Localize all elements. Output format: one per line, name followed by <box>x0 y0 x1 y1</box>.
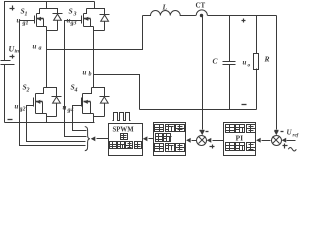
CT junction dot <box>200 14 203 17</box>
svg-text:4: 4 <box>74 88 78 94</box>
label + sum1 <box>210 146 215 148</box>
summing junction sum2 <box>272 136 282 146</box>
svg-text:a: a <box>39 46 42 52</box>
svg-text:L: L <box>162 3 168 12</box>
svg-text:in: in <box>15 49 20 55</box>
gate wire S3 <box>65 21 87 137</box>
svg-text:g1: g1 <box>22 21 29 27</box>
arrow into sum2 <box>274 131 279 136</box>
label + battery <box>10 56 15 58</box>
svg-text:g3: g3 <box>70 21 77 27</box>
gate wire S2 <box>27 106 86 142</box>
wire: DC left rail and top bus <box>5 2 95 61</box>
wire: S2 source <box>36 113 47 115</box>
arrow into sum1 <box>200 131 205 136</box>
wire sum2 out to PI block <box>262 140 271 142</box>
svg-text:PI: PI <box>236 134 244 143</box>
svg-text:S: S <box>69 7 73 16</box>
svg-text:ref: ref <box>293 134 300 139</box>
diode D3 <box>100 15 110 22</box>
wire: S2 riser to bus <box>46 114 48 123</box>
fake glyph huo <box>121 134 128 140</box>
sine symbol <box>288 148 296 152</box>
transistor S1 <box>35 14 44 27</box>
wire: D3 anode <box>104 22 106 31</box>
fake glyphs dian ya huan <box>226 125 256 133</box>
wire: voltage sense rail <box>276 16 278 130</box>
svg-text:3: 3 <box>73 12 77 18</box>
pulse waveform <box>113 113 131 121</box>
arrow SPWM to gates <box>97 138 109 140</box>
transistor S2 <box>34 94 43 114</box>
diode D1 <box>53 14 63 21</box>
svg-text:R: R <box>264 55 270 64</box>
summing junction sum1 <box>197 136 207 146</box>
wire: output bottom bus <box>140 109 257 111</box>
fake glyphs tiao jie qi <box>155 144 185 152</box>
capacitor C <box>223 16 236 110</box>
label minus sum2 <box>281 131 284 133</box>
block U2 SPWM or hysteresis modulator <box>109 124 143 156</box>
label minus bottom left <box>8 119 13 121</box>
wire: S4 source <box>83 113 94 115</box>
node B wire ub <box>94 75 140 110</box>
wire: S4/D4 merge <box>94 116 105 118</box>
wire: leg B bottom tee <box>83 88 92 94</box>
svg-text:u: u <box>15 103 19 111</box>
svg-text:b: b <box>89 72 92 78</box>
label minus output <box>242 104 247 106</box>
wire: D4 anode <box>104 104 106 117</box>
wire uref to sum2 <box>287 140 296 142</box>
label + output <box>242 20 246 22</box>
wire: leg A riser <box>46 27 48 88</box>
label + top left <box>10 8 15 10</box>
svg-text:u: u <box>33 43 37 51</box>
fake glyphs wu cha <box>156 134 172 142</box>
svg-text:1: 1 <box>25 12 28 18</box>
wire: leg A top tee <box>37 9 40 14</box>
CT hump <box>196 10 207 16</box>
svg-text:SPWM: SPWM <box>113 127 135 134</box>
battery Uin plates <box>1 60 11 62</box>
brace gates <box>85 127 90 151</box>
wire PI block to sum1 <box>213 140 224 142</box>
svg-text:CT: CT <box>196 2 206 10</box>
svg-text:2: 2 <box>26 88 30 94</box>
wire: S2/D2 merge <box>47 116 57 118</box>
transistor S4 <box>82 94 91 114</box>
wire: leg B riser <box>93 27 95 88</box>
gate wire S4 <box>73 106 87 131</box>
wire current block to SPWM <box>149 138 154 140</box>
wire: bottom bus <box>5 122 95 124</box>
wire sum1 out to current block <box>192 140 197 142</box>
fake glyphs tiao jie qi 2 <box>226 143 256 151</box>
wire: S4 riser to bus <box>93 114 95 123</box>
resistor R <box>254 16 259 110</box>
wire: current sense from CT <box>202 16 204 130</box>
label + sum2 <box>283 145 288 147</box>
wire: S3/D3 merge <box>94 30 105 32</box>
svg-text:u: u <box>243 59 247 67</box>
label minus sum1 <box>206 131 209 133</box>
gate wire S1 <box>20 21 86 146</box>
block U3 current loop error regulator <box>154 123 186 156</box>
svg-text:C: C <box>213 57 219 66</box>
wire: D1 anode <box>57 21 59 31</box>
svg-text:o: o <box>248 63 251 69</box>
fake glyphs zhi huan tiao zhi <box>110 142 142 149</box>
wire: top bus right <box>208 15 277 17</box>
node A wire ua <box>47 16 143 50</box>
wire: D2 anode <box>56 104 58 117</box>
diode D2 <box>52 97 62 104</box>
diode D4 <box>100 97 110 104</box>
fake glyphs dian liu huan <box>155 125 185 132</box>
svg-text:u: u <box>83 69 87 77</box>
wire: leg B top tee <box>84 9 87 14</box>
inductor L <box>143 11 196 16</box>
wire: S1 source <box>37 26 47 28</box>
block U4 voltage loop PI regulator <box>224 123 256 156</box>
wire: S1/D1 merge <box>47 30 58 32</box>
transistor S3 <box>82 14 91 27</box>
wire: S3 source <box>84 26 94 28</box>
wire: leg A bottom tee <box>36 88 44 94</box>
